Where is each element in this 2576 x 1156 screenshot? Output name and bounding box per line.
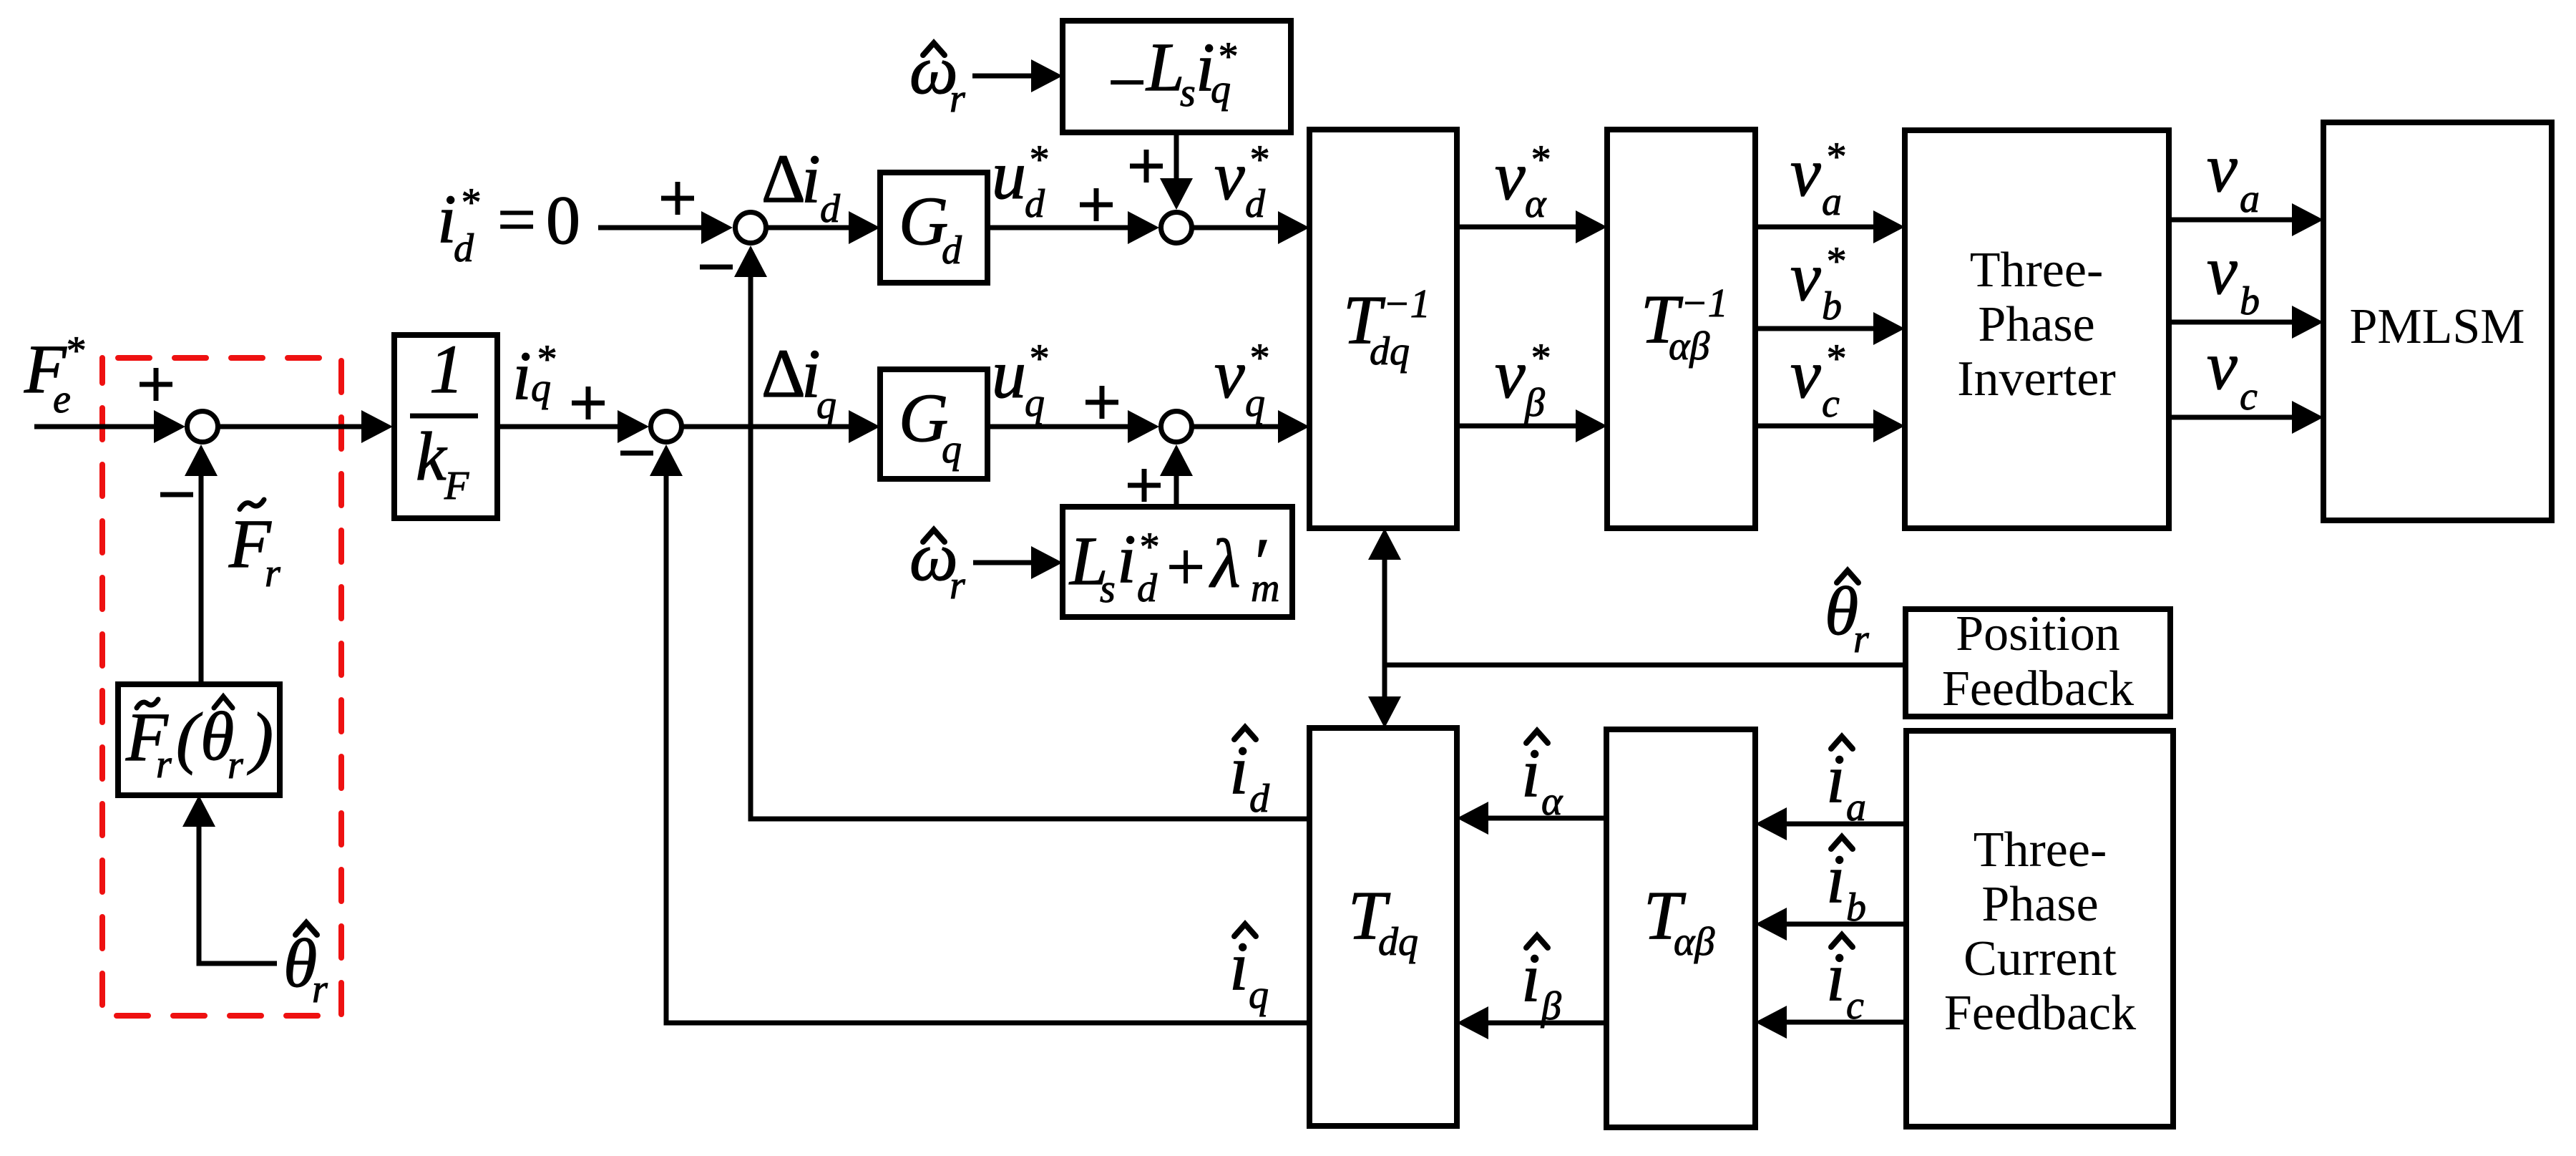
svg-text:i: i bbox=[1521, 939, 1541, 1016]
svg-text:Feedback: Feedback bbox=[1944, 986, 2136, 1041]
plus sign at S2 bbox=[661, 182, 694, 215]
wire Fr tilde block up to S0 bbox=[199, 472, 204, 684]
block three-phase current feedback bbox=[1906, 731, 2173, 1127]
plus sign at S0 bbox=[140, 368, 172, 401]
arrowhead iq* into S1 bbox=[618, 410, 649, 443]
summing junction S3 (vd) bbox=[1161, 213, 1192, 243]
label ic_hat accent bbox=[1831, 935, 1853, 947]
arrowhead Lsid into S4 bbox=[1160, 445, 1193, 476]
wire vc* to inverter bbox=[1755, 424, 1892, 429]
label ialpha_hat accent bbox=[1526, 731, 1548, 743]
svg-text:e: e bbox=[53, 377, 71, 422]
block 1/kF gain bbox=[394, 335, 497, 518]
block Tab clarke transform bbox=[1606, 729, 1755, 1127]
svg-text:r: r bbox=[228, 743, 243, 787]
svg-text:Phase: Phase bbox=[1978, 297, 2094, 352]
wire -Lsiq block down to S3 bbox=[1174, 132, 1179, 198]
svg-text:v: v bbox=[2207, 327, 2238, 404]
svg-text:*: * bbox=[1248, 137, 1268, 182]
svg-text:Inverter: Inverter bbox=[1957, 351, 2116, 407]
arrowhead id* into S2 bbox=[701, 211, 733, 244]
svg-text:d: d bbox=[1137, 566, 1158, 611]
svg-text:λ: λ bbox=[1209, 525, 1241, 602]
svg-text:1: 1 bbox=[429, 331, 464, 407]
wire S2 to Gd bbox=[766, 225, 867, 230]
arrowhead vd* into Tdq-1 bbox=[1278, 211, 1309, 244]
svg-text:c: c bbox=[1822, 382, 1840, 426]
svg-text:v: v bbox=[1214, 336, 1245, 412]
label ib_hat accent bbox=[1831, 837, 1853, 849]
svg-text:i: i bbox=[1229, 928, 1249, 1004]
svg-text:d: d bbox=[1245, 182, 1266, 226]
arrowhead va* into Tab-1 bbox=[1576, 210, 1607, 243]
svg-text:*: * bbox=[1028, 137, 1048, 182]
svg-text:q: q bbox=[816, 383, 836, 427]
svg-text:q: q bbox=[531, 366, 551, 410]
svg-text:Current: Current bbox=[1963, 931, 2117, 986]
svg-text:i: i bbox=[1826, 938, 1845, 1015]
svg-text:d: d bbox=[820, 187, 841, 231]
svg-text:i: i bbox=[1521, 734, 1541, 811]
block Gd current controller bbox=[880, 173, 987, 283]
svg-text:v: v bbox=[2207, 232, 2238, 309]
svg-text:a: a bbox=[2240, 177, 2260, 221]
svg-text:dq: dq bbox=[1378, 920, 1418, 964]
svg-text:G: G bbox=[899, 379, 948, 456]
arrowhead into Gd bbox=[849, 211, 880, 244]
arrowhead into Gq bbox=[849, 410, 880, 443]
arrowhead -Lsiq into S3 bbox=[1160, 178, 1193, 210]
svg-text:Three-: Three- bbox=[1970, 243, 2104, 298]
svg-text:*: * bbox=[64, 329, 84, 373]
svg-text:d: d bbox=[1249, 777, 1270, 821]
svg-text:d: d bbox=[942, 228, 962, 273]
svg-text:Δ: Δ bbox=[761, 140, 806, 217]
minus sign at S2 bbox=[700, 265, 733, 270]
arrowhead Fe* into S0 bbox=[154, 410, 185, 443]
block Tdq-1 inverse park transform bbox=[1309, 130, 1457, 528]
minus sign at S0 bbox=[160, 492, 193, 497]
svg-text:*: * bbox=[1529, 336, 1549, 380]
arrowhead iq feedback into S1 bbox=[650, 445, 683, 476]
plus sign above S3 bbox=[1130, 150, 1163, 183]
label Fr_tilde accent bbox=[240, 500, 264, 510]
wire i_beta Tab to Tdq bbox=[1485, 1021, 1606, 1026]
svg-text:β: β bbox=[1524, 381, 1545, 425]
arrowhead ia into Tab bbox=[1755, 807, 1787, 840]
arrowhead Fr tilde into S0 bbox=[185, 445, 218, 476]
label Fr_block theta accent bbox=[214, 696, 233, 708]
svg-text:v: v bbox=[1790, 134, 1821, 210]
wire S1 to Gq bbox=[681, 424, 867, 429]
arrowhead vq* into Tdq-1 bbox=[1278, 410, 1309, 443]
arrowhead ib into Tab bbox=[1755, 908, 1787, 941]
wire Gd to S3 (ud*) bbox=[987, 225, 1145, 230]
arrowhead theta_r down into Tdq bbox=[1368, 696, 1401, 728]
svg-text:v: v bbox=[1214, 137, 1245, 214]
svg-text:a: a bbox=[1846, 785, 1866, 830]
wire va* to inverter bbox=[1755, 225, 1892, 230]
arrowhead i_beta into Tdq bbox=[1457, 1006, 1488, 1039]
svg-text:Δ: Δ bbox=[761, 335, 806, 412]
arrowhead vc* into inverter bbox=[1873, 409, 1905, 442]
arrowhead wr into Lsid block bbox=[1031, 546, 1063, 579]
svg-text:i: i bbox=[1826, 740, 1845, 817]
label ia_hat accent bbox=[1831, 737, 1853, 749]
svg-text:(: ( bbox=[176, 699, 203, 775]
svg-text:L: L bbox=[1145, 29, 1184, 105]
svg-text:Position: Position bbox=[1956, 606, 2120, 661]
svg-text:b: b bbox=[1822, 284, 1842, 329]
svg-text:v: v bbox=[1790, 336, 1821, 412]
wire id feedback to S2 bbox=[751, 273, 1309, 819]
svg-text:*: * bbox=[1028, 336, 1048, 381]
block three-phase inverter bbox=[1905, 130, 2169, 528]
summing junction S0 (force) bbox=[187, 412, 218, 442]
svg-text:v: v bbox=[2207, 130, 2238, 206]
svg-text:b: b bbox=[1846, 885, 1866, 930]
block PMLSM motor bbox=[2323, 122, 2552, 520]
svg-text:*: * bbox=[1248, 336, 1268, 380]
svg-text:v: v bbox=[1495, 137, 1526, 214]
label theta_r_hat pf accent bbox=[1837, 570, 1858, 583]
svg-text:i: i bbox=[1117, 520, 1136, 597]
arrowhead vc into PMLSM bbox=[2292, 401, 2323, 434]
svg-text:q: q bbox=[1025, 381, 1045, 425]
svg-text:*: * bbox=[1825, 239, 1845, 283]
svg-text:a: a bbox=[1822, 180, 1842, 224]
arrowhead ud* into S3 bbox=[1128, 211, 1159, 244]
svg-text:−: − bbox=[1108, 44, 1146, 120]
wire iq feedback to S1 bbox=[666, 472, 1309, 1023]
wire id*=0 to S2 bbox=[598, 225, 719, 230]
arrowhead vb into PMLSM bbox=[2292, 306, 2323, 339]
wire wr to -Lsiq block bbox=[972, 74, 1050, 79]
svg-text:α: α bbox=[1541, 779, 1563, 824]
svg-text:−1: −1 bbox=[1681, 281, 1728, 326]
wire ib feedback bbox=[1783, 922, 1906, 927]
svg-text:d: d bbox=[1025, 182, 1045, 226]
svg-text:q: q bbox=[1211, 67, 1231, 112]
svg-text:*: * bbox=[1825, 336, 1845, 381]
arrowhead vb* into inverter bbox=[1873, 312, 1905, 345]
summing junction S4 (vq) bbox=[1161, 412, 1192, 442]
svg-text:q: q bbox=[942, 427, 962, 472]
svg-text:r: r bbox=[265, 551, 280, 596]
svg-text:Three-: Three- bbox=[1974, 822, 2107, 878]
summing junction S1 (iq) bbox=[651, 412, 682, 442]
wire theta_r vertical double arrow bbox=[1382, 556, 1387, 700]
label ibeta_hat accent bbox=[1526, 936, 1548, 948]
svg-text:αβ: αβ bbox=[1674, 920, 1714, 964]
wire i_alpha Tab to Tdq bbox=[1485, 816, 1606, 821]
svg-text:r: r bbox=[1853, 617, 1869, 661]
wire S3 to Tdq-1 (vd*) bbox=[1191, 225, 1297, 230]
svg-text:0: 0 bbox=[546, 182, 580, 258]
arrowhead wr into -Lsiq block bbox=[1031, 59, 1063, 92]
svg-text:αβ: αβ bbox=[1669, 324, 1709, 369]
arrowhead uq* into S4 bbox=[1128, 410, 1159, 443]
svg-text:q: q bbox=[1249, 973, 1269, 1017]
block -Ls iq* decoupling bbox=[1063, 21, 1291, 132]
svg-text:c: c bbox=[2240, 374, 2258, 419]
svg-text:): ) bbox=[247, 699, 273, 775]
label Fr_block accent bbox=[137, 699, 158, 708]
svg-text:i: i bbox=[512, 337, 532, 414]
arrowhead va into PMLSM bbox=[2292, 203, 2323, 236]
svg-text:s: s bbox=[1180, 71, 1196, 115]
wire S4 to Tdq-1 (vq*) bbox=[1191, 424, 1297, 429]
svg-text:=: = bbox=[497, 181, 536, 258]
svg-text:G: G bbox=[899, 183, 948, 259]
svg-text:r: r bbox=[312, 967, 328, 1011]
block Tdq park transform bbox=[1309, 728, 1457, 1126]
plus sign left of S3 bbox=[1080, 188, 1113, 221]
red dashed internal-model boundary bbox=[102, 358, 341, 1016]
minus sign at S1 bbox=[620, 451, 653, 456]
label iq_hat accent bbox=[1234, 924, 1256, 936]
wire ia feedback bbox=[1783, 822, 1906, 827]
wire va to PMLSM bbox=[2169, 218, 2311, 223]
svg-text:r: r bbox=[156, 742, 172, 787]
svg-text:d: d bbox=[454, 226, 474, 271]
svg-text:−1: −1 bbox=[1383, 282, 1430, 326]
wire ic feedback bbox=[1783, 1020, 1906, 1025]
svg-text:*: * bbox=[459, 180, 479, 225]
arrowhead vb* into Tab-1 bbox=[1576, 409, 1607, 442]
svg-text:q: q bbox=[1245, 381, 1265, 425]
svg-text:b: b bbox=[2240, 279, 2260, 324]
svg-text:c: c bbox=[1846, 983, 1864, 1028]
svg-text:+: + bbox=[1166, 528, 1205, 605]
wire theta_r into Fr tilde block bbox=[199, 823, 277, 963]
svg-text:Phase: Phase bbox=[1981, 877, 2098, 932]
arrowhead into 1/kF bbox=[361, 410, 393, 443]
svg-text:i: i bbox=[1826, 840, 1845, 917]
wire vb to PMLSM bbox=[2169, 320, 2311, 325]
wire wr to Lsid block bbox=[973, 560, 1050, 565]
wire 1/kF to S1 bbox=[499, 424, 635, 429]
svg-text:v: v bbox=[1495, 336, 1526, 412]
block Tab-1 inverse clarke transform bbox=[1607, 130, 1755, 528]
arrowhead id feedback into S2 bbox=[734, 246, 767, 277]
plus sign at S1 bbox=[572, 387, 605, 419]
block Gq current controller bbox=[880, 369, 987, 479]
arrowhead theta_r into Fr tilde block bbox=[182, 795, 215, 827]
svg-text:u: u bbox=[992, 137, 1026, 213]
wire theta_r from position feedback bbox=[1385, 663, 1906, 668]
block position feedback bbox=[1906, 609, 2170, 717]
svg-text:m: m bbox=[1251, 566, 1279, 611]
svg-text:β: β bbox=[1541, 984, 1561, 1029]
label 1/kF fraction bar bbox=[410, 414, 478, 419]
svg-text:v: v bbox=[1790, 238, 1821, 315]
wire vb* to inverter bbox=[1755, 326, 1892, 331]
svg-text:r: r bbox=[950, 77, 965, 121]
svg-text:PMLSM: PMLSM bbox=[2349, 299, 2524, 354]
svg-text:k: k bbox=[416, 418, 448, 495]
plus sign left of S4 bbox=[1085, 386, 1118, 419]
plus sign below S4 bbox=[1128, 469, 1161, 502]
svg-text:r: r bbox=[950, 563, 965, 608]
svg-text:F: F bbox=[444, 464, 469, 508]
svg-text:dq: dq bbox=[1370, 329, 1410, 374]
arrowhead theta_r up into Tdq-1 bbox=[1368, 528, 1401, 560]
wire vc to PMLSM bbox=[2169, 415, 2311, 420]
block Ls id* + lambda_m decoupling bbox=[1063, 507, 1292, 617]
label id_hat accent bbox=[1234, 727, 1256, 739]
svg-text:*: * bbox=[1529, 137, 1549, 182]
label wr_hat top accent bbox=[923, 43, 945, 55]
label theta_r_hat bl accent bbox=[296, 923, 317, 935]
arrowhead ic into Tab bbox=[1755, 1006, 1787, 1039]
svg-text:i: i bbox=[1229, 732, 1249, 808]
arrowhead i_alpha into Tdq bbox=[1457, 802, 1488, 835]
label wr_hat bottom accent bbox=[923, 530, 945, 542]
wire Lsid block up to S4 bbox=[1174, 457, 1179, 505]
wire S0 to 1/kF bbox=[218, 424, 379, 429]
wire vb* Tdq-1 to Tab-1 bbox=[1457, 424, 1594, 429]
arrowhead va* into inverter bbox=[1873, 210, 1905, 243]
svg-text:s: s bbox=[1100, 567, 1116, 611]
wire Fe* input bbox=[34, 424, 172, 429]
svg-text:i: i bbox=[801, 140, 821, 217]
svg-text:*: * bbox=[1138, 525, 1158, 569]
wire va* Tdq-1 to Tab-1 bbox=[1457, 225, 1594, 230]
svg-text:Feedback: Feedback bbox=[1942, 661, 2134, 717]
svg-text:α: α bbox=[1525, 182, 1547, 226]
wire Gq to S4 (uq*) bbox=[987, 424, 1145, 429]
svg-text:u: u bbox=[992, 336, 1026, 412]
svg-text:*: * bbox=[1825, 135, 1845, 179]
summing junction S2 (id) bbox=[736, 213, 766, 243]
block Fr tilde estimator bbox=[118, 684, 280, 795]
